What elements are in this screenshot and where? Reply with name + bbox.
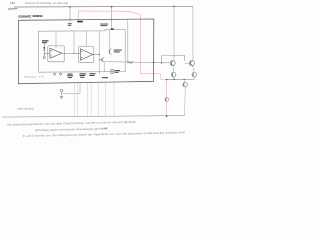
- wire x56 riser: [55, 31, 57, 48]
- ground: [60, 95, 63, 97]
- op-amp U1b box: [79, 46, 94, 62]
- node junction x161: [161, 63, 162, 64]
- wire x127 column: [127, 20, 129, 62]
- transistor Q8 internal: [108, 50, 110, 54]
- wire x74 riser: [73, 31, 75, 53]
- wire stub bottom: [62, 83, 81, 94]
- pin 3 mark: [77, 21, 83, 23]
- label pin cluster 2: [80, 73, 87, 74]
- node junction bottom: [166, 115, 168, 117]
- IC U1 outline box: [38, 30, 125, 73]
- label regulator text: [100, 23, 108, 26]
- node junction x99: [99, 54, 100, 55]
- wire Q2 base: [185, 62, 191, 64]
- wire top supply rail: [14, 5, 193, 8]
- label Q8 text: [114, 49, 122, 52]
- transistor Q1: [170, 61, 175, 66]
- wire Q1 emitter down: [172, 66, 174, 73]
- rule under page number: [8, 8, 18, 10]
- svg-text:Schema TV-voedings- en oost-tr: Schema TV-voedings- en oost-trap: [25, 2, 69, 5]
- pin mark x111: [111, 28, 114, 29]
- wire rail y79.5: [167, 78, 195, 80]
- wire Q3 emitter: [173, 77, 175, 80]
- node junction on rail x174: [173, 6, 175, 8]
- wire drop x70 to pin3: [69, 7, 71, 22]
- op-amp U1a box: [48, 46, 64, 62]
- label pin cluster 1: [68, 74, 73, 75]
- svg-text:Voltages: TTV: Voltages: TTV: [24, 75, 45, 78]
- transistor Q4: [192, 72, 197, 77]
- svg-text:SCHEMATIC: SCHEMATIC: [18, 14, 31, 18]
- frame border of schematic: [18, 19, 153, 84]
- wire into U1a: [44, 52, 50, 54]
- transistor Q6: [165, 98, 169, 102]
- pin terminal B: [60, 73, 62, 75]
- IC type label TDA: [42, 40, 49, 41]
- highlighted trace pink stub x91: [90, 83, 92, 116]
- transistor Q9: [60, 89, 63, 92]
- wire U1a output: [62, 52, 80, 54]
- wire Q9 emitter: [61, 92, 63, 96]
- node junction x74: [73, 53, 74, 54]
- wire stub x74.5: [74, 83, 76, 116]
- resistor R1: [111, 69, 113, 73]
- wire Q4 emitter: [193, 77, 195, 79]
- wire stub x105.8: [105, 83, 107, 116]
- terminal T1: [43, 56, 45, 58]
- svg-text:4Ω7: 4Ω7: [129, 61, 134, 64]
- op-amp U1a: [50, 48, 62, 58]
- node junction rail a: [166, 79, 167, 80]
- transistor Q5: [183, 82, 188, 87]
- wire x109 feed: [108, 30, 110, 50]
- label pin cluster 3: [90, 73, 96, 74]
- zener diode D1: [43, 44, 45, 47]
- wire U1b output: [93, 54, 99, 56]
- svg-text:t. 4p): t. 4p): [102, 127, 107, 130]
- highlighted trace (pink): [79, 11, 167, 116]
- wire bottom ground rail: [2, 116, 185, 118]
- node junction x128: [127, 61, 128, 62]
- svg-text:136: 136: [10, 1, 15, 5]
- label pin cluster 4: [102, 77, 108, 78]
- label pin text upper left: [68, 22, 72, 25]
- wire Q2 emitter down: [193, 66, 195, 73]
- svg-text:5HE (filmppc): 5HE (filmppc): [17, 107, 34, 110]
- transistor Q2: [189, 61, 194, 66]
- wire stub x77.5: [77, 83, 79, 116]
- wire drop x111.6: [111, 7, 113, 29]
- label R1: [115, 69, 121, 72]
- wire drop x192.9 to Q2: [192, 6, 194, 60]
- op-amp U1b: [80, 49, 93, 60]
- wire x161.6 drop: [161, 56, 163, 64]
- wire stub x98.4: [97, 83, 99, 116]
- wire x99.2 column: [98, 31, 100, 75]
- node junction rail c: [184, 79, 185, 80]
- node junction on rail x111.6: [111, 6, 113, 8]
- pin terminal A: [54, 73, 56, 75]
- transistor Q3: [171, 72, 176, 77]
- wire Q5 emitter long: [184, 87, 187, 116]
- wire Q5 feed: [183, 79, 185, 82]
- highlighted trace pink stub x114: [113, 82, 115, 116]
- wire x184.6 drop: [184, 55, 186, 61]
- wire Q7 emitter drop: [103, 62, 105, 72]
- svg-text:DIAGRAM: DIAGRAM: [33, 14, 44, 18]
- wire y55.5 right: [162, 54, 185, 56]
- wire stub x87.4: [86, 83, 88, 116]
- transistor Q7 internal: [101, 58, 103, 61]
- node junction on frame: [153, 62, 154, 63]
- node junction on rail x70: [69, 6, 71, 8]
- wire drop x174 to Q1: [173, 6, 175, 60]
- node junction rail b: [173, 79, 174, 80]
- wire x86.4 riser: [85, 31, 87, 46]
- wire output line: [104, 62, 169, 63]
